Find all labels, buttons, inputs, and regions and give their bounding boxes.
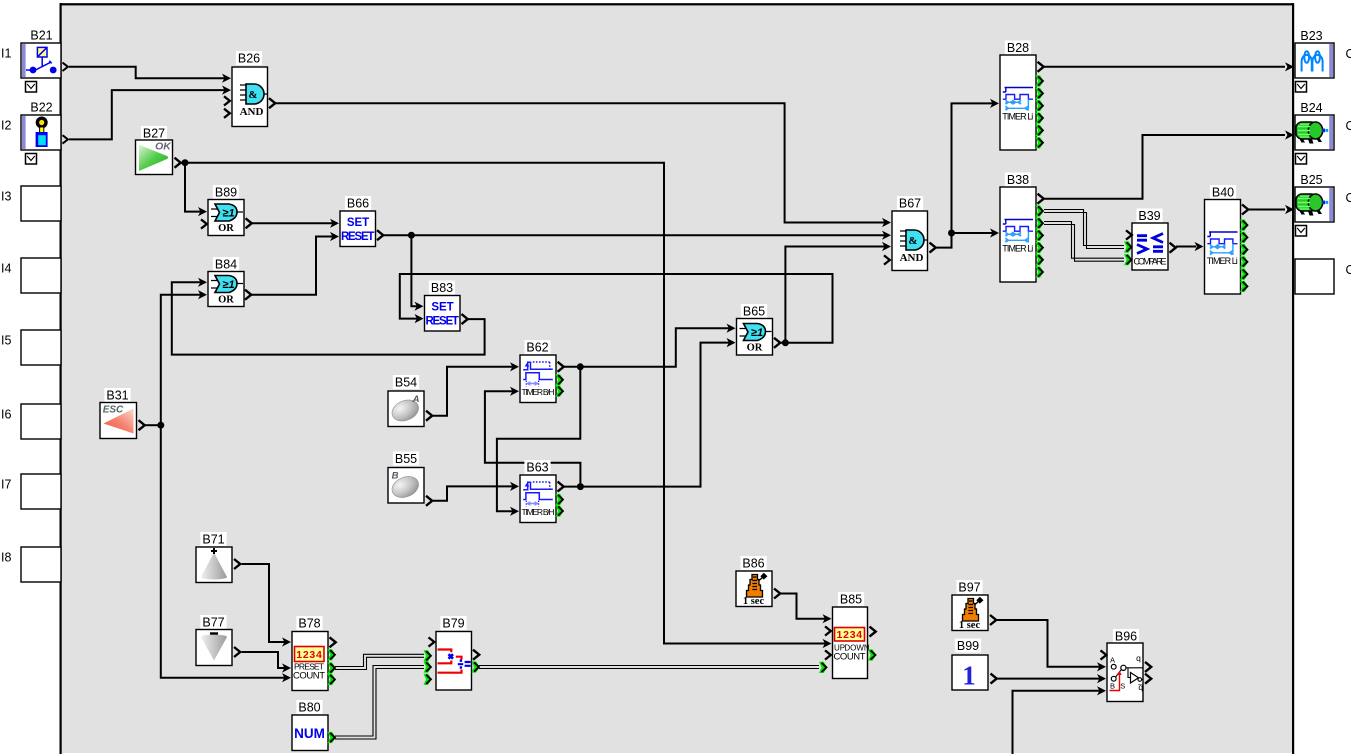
svg-text:B66: B66 [347,197,369,211]
input terminal I5 [1,330,61,365]
junction at B65 output [782,339,789,346]
wire B97 out to B96 inA [997,620,1100,667]
junction at B62 output [577,363,584,370]
svg-text:SET: SET [347,217,369,229]
switch block B96 (A/B selector) [1097,629,1151,702]
wire B84 out to B66 in2 [252,237,334,295]
logic block B65 (OR) [727,304,781,355]
svg-text:COUNT: COUNT [293,671,325,682]
bus B80 NUM out to B79 in3 (double line) [335,666,424,737]
canvas border right [1292,3,1294,754]
key block B71 (plus cone) [196,532,240,583]
svg-text:OK: OK [155,141,172,153]
svg-text:O2: O2 [1346,119,1351,133]
svg-text:I1: I1 [1,47,11,61]
junction at B31 output [157,422,164,429]
svg-text:I5: I5 [1,334,11,348]
wire B63 out feedback to B62 in2 [485,391,581,486]
logic block B67 (AND) [882,196,936,271]
svg-text:B86: B86 [742,557,764,571]
input terminal I2 [1,100,68,164]
svg-text:B80: B80 [298,701,320,715]
wire B65 out to B67 in3 [780,247,885,343]
constant block B99 (1) [952,639,997,691]
svg-text:1234: 1234 [296,649,323,661]
svg-text:A: A [412,394,420,405]
svg-text:&: & [248,89,257,101]
wire B66 junction to B83 in1 [411,235,417,306]
wire B31 out to junction [146,424,161,426]
svg-text:I6: I6 [1,408,11,422]
wire B62 out feedback to B63 in2 [497,367,580,512]
svg-text:B63: B63 [526,461,548,475]
counter block B78 (PRESET COUNT) [282,616,336,691]
svg-text:I4: I4 [1,262,11,276]
key block B55 (ball B) [388,452,432,506]
logic block B26 (AND) [222,51,275,127]
svg-text:q̅: q̅ [1138,682,1144,692]
svg-text:AND: AND [900,252,924,264]
svg-text:OR: OR [218,223,234,234]
wire B40 out to output B25 [1249,209,1286,211]
svg-text:RESET: RESET [425,316,459,328]
svg-text:1: 1 [962,661,976,691]
canvas border left [60,3,62,754]
key block B54 (ball A) [388,375,432,427]
junction at B63 output [577,483,584,490]
svg-text:O3: O3 [1346,191,1351,205]
svg-text:TIMER Li: TIMER Li [1002,112,1033,122]
svg-text:B71: B71 [202,533,224,547]
svg-text:B99: B99 [957,639,979,653]
svg-text:COUNT: COUNT [834,652,866,663]
timer block B63 (TIMER B/H) [510,460,564,523]
svg-text:SET: SET [431,302,453,314]
wire B28 out to output B23 [1045,66,1286,68]
svg-text:B96: B96 [1115,630,1137,644]
svg-text:B89: B89 [215,186,237,200]
wire B31 junction up to B84 in2 [161,295,201,426]
svg-text:TIMER B/H: TIMER B/H [522,507,555,517]
svg-text:B38: B38 [1007,173,1029,187]
svg-text:RESET: RESET [341,231,375,243]
latch block B66 (SET RESET) [330,196,383,247]
wire B38 out to output B24 [1045,135,1286,199]
bus B79 out to B85 in5 (double line) [479,665,819,667]
clock block B86 (1 sec) [736,556,780,607]
latch block B83 (SET RESET) [415,281,468,332]
wire B55 out to B63 in1 [433,486,513,500]
output terminal block B23 [1285,29,1334,93]
svg-text:ESC: ESC [103,405,124,416]
svg-text:q: q [1136,653,1141,663]
bus B38 conn2 to B39 in3 (double line) [1044,222,1124,259]
svg-text:B40: B40 [1212,186,1234,200]
wire B63 out to B65 in2 [563,343,730,487]
wire B67 out to junction [936,233,952,248]
wire B27 junction to B89 in1 [185,163,201,212]
svg-text:AND: AND [240,106,264,118]
svg-text:OR: OR [747,343,763,354]
svg-text:OR: OR [218,295,234,306]
bus B38 conn1 to B39 in2 (double line) [1044,210,1124,246]
wire from below to B96 inS [1013,691,1101,754]
wire I1 to B26 in1 [69,67,225,78]
svg-text:B31: B31 [106,389,128,403]
svg-text:NUM: NUM [294,726,325,741]
wire B89 out to B66 in1 [252,222,333,224]
svg-text:B85: B85 [840,593,862,607]
svg-text:≥1: ≥1 [751,327,763,339]
svg-text:≥1: ≥1 [222,279,234,291]
svg-text:TIMER Li: TIMER Li [1207,256,1238,266]
svg-text:B23: B23 [1300,29,1322,43]
clock block B97 (1 sec) [952,580,996,631]
timer block B40 (TIMER Li) [1195,185,1249,294]
svg-text:B26: B26 [238,52,260,66]
compare block B39 (COMPARE) [1124,209,1176,271]
svg-text:I3: I3 [1,190,11,204]
svg-text:B25: B25 [1300,173,1322,187]
svg-text:B24: B24 [1300,101,1322,115]
svg-text:B79: B79 [442,617,464,631]
wire junction to B38 in1 [952,232,994,234]
wire B71 out to B78 in1 [242,564,286,642]
wire B27 out to B85 in3 (long) [182,163,827,644]
svg-text:B22: B22 [30,101,52,115]
wire B54 out to B62 in1 [433,367,513,416]
svg-text:B84: B84 [215,258,237,272]
svg-text:1 sec: 1 sec [959,620,981,631]
timer block B62 (TIMER B/H) [510,340,564,403]
svg-text:O4: O4 [1346,263,1351,277]
wire B99 out to B96 inB [998,678,1101,680]
svg-text:B67: B67 [899,197,921,211]
svg-text:B28: B28 [1007,41,1029,55]
function key block B27 (green arrow OK) [136,126,181,175]
svg-text:B: B [392,471,399,482]
key block B77 (minus cone) [196,615,240,666]
wire B77 out to B78 in2 [242,652,286,668]
svg-text:B65: B65 [743,305,765,319]
wire B39 out to B40 in1 [1176,246,1196,248]
input terminal I8 [1,547,61,582]
wire B86 out to B85 in1 [781,594,826,619]
wire B65 out loop to B83 in2 [400,274,833,343]
timer block B38 (TIMER Li) [990,173,1044,283]
junction at B67 output [948,230,955,237]
svg-text:TIMER Li: TIMER Li [1002,244,1033,254]
svg-text:B83: B83 [431,281,453,295]
svg-text:1 sec: 1 sec [743,596,765,607]
logic block B89 (OR) [198,185,252,236]
svg-text:1234: 1234 [837,629,864,641]
svg-text:I8: I8 [1,551,11,565]
junction at B66 output [408,232,415,239]
wire B62 out to B65 in1 [563,328,730,367]
logic block B84 (OR) [198,257,251,307]
output terminal empty O4 [1295,259,1334,294]
input terminal I6 [1,404,61,439]
math block B79 (mul div) [424,616,480,690]
svg-text:B55: B55 [395,452,417,466]
wire B83 out to B84 in1 [172,282,485,354]
constant block B80 (NUM) [292,700,336,751]
output terminal block B24 [1285,101,1334,165]
svg-text:O1: O1 [1346,47,1351,61]
wire B26 out to B67 in1 [276,103,885,222]
svg-text:B21: B21 [30,29,52,43]
svg-text:A: A [1110,656,1115,665]
svg-text:B78: B78 [298,617,320,631]
junction at B27 output [182,159,189,166]
svg-text:≥1: ≥1 [222,207,234,219]
counter block B85 (UP DOWN COUNT) [819,592,876,679]
wire B66 out to B67 in2 [384,234,886,236]
svg-text:COMPARE: COMPARE [1134,257,1167,267]
wire I2 to B26 in2 [69,90,225,139]
svg-text:B39: B39 [1138,209,1160,223]
input terminal I7 [1,474,61,509]
timer block B28 (TIMER Li) [990,41,1044,151]
input terminal I4 [1,258,61,293]
svg-text:S: S [1120,682,1125,691]
bus B78 value out to B79 in2 (double line) [335,654,424,666]
key block B31 (ESC) [100,388,145,439]
svg-text:B54: B54 [395,376,417,390]
wire junction up to B28 in1 [952,103,994,233]
svg-text:TIMER B/H: TIMER B/H [522,387,555,397]
input terminal I3 [1,186,61,221]
output terminal block B25 [1285,173,1334,237]
svg-text:&: & [908,235,917,247]
input terminal I1 [1,28,68,92]
svg-text:B: B [1110,682,1115,691]
wire B31 junction down to B78 in3 [161,425,285,678]
svg-text:I2: I2 [1,119,11,133]
canvas border top [60,3,1295,5]
svg-text:B97: B97 [958,581,980,595]
svg-text:B77: B77 [202,616,224,630]
svg-text:I7: I7 [1,478,11,492]
svg-text:B62: B62 [526,341,548,355]
svg-text:B27: B27 [143,127,165,141]
